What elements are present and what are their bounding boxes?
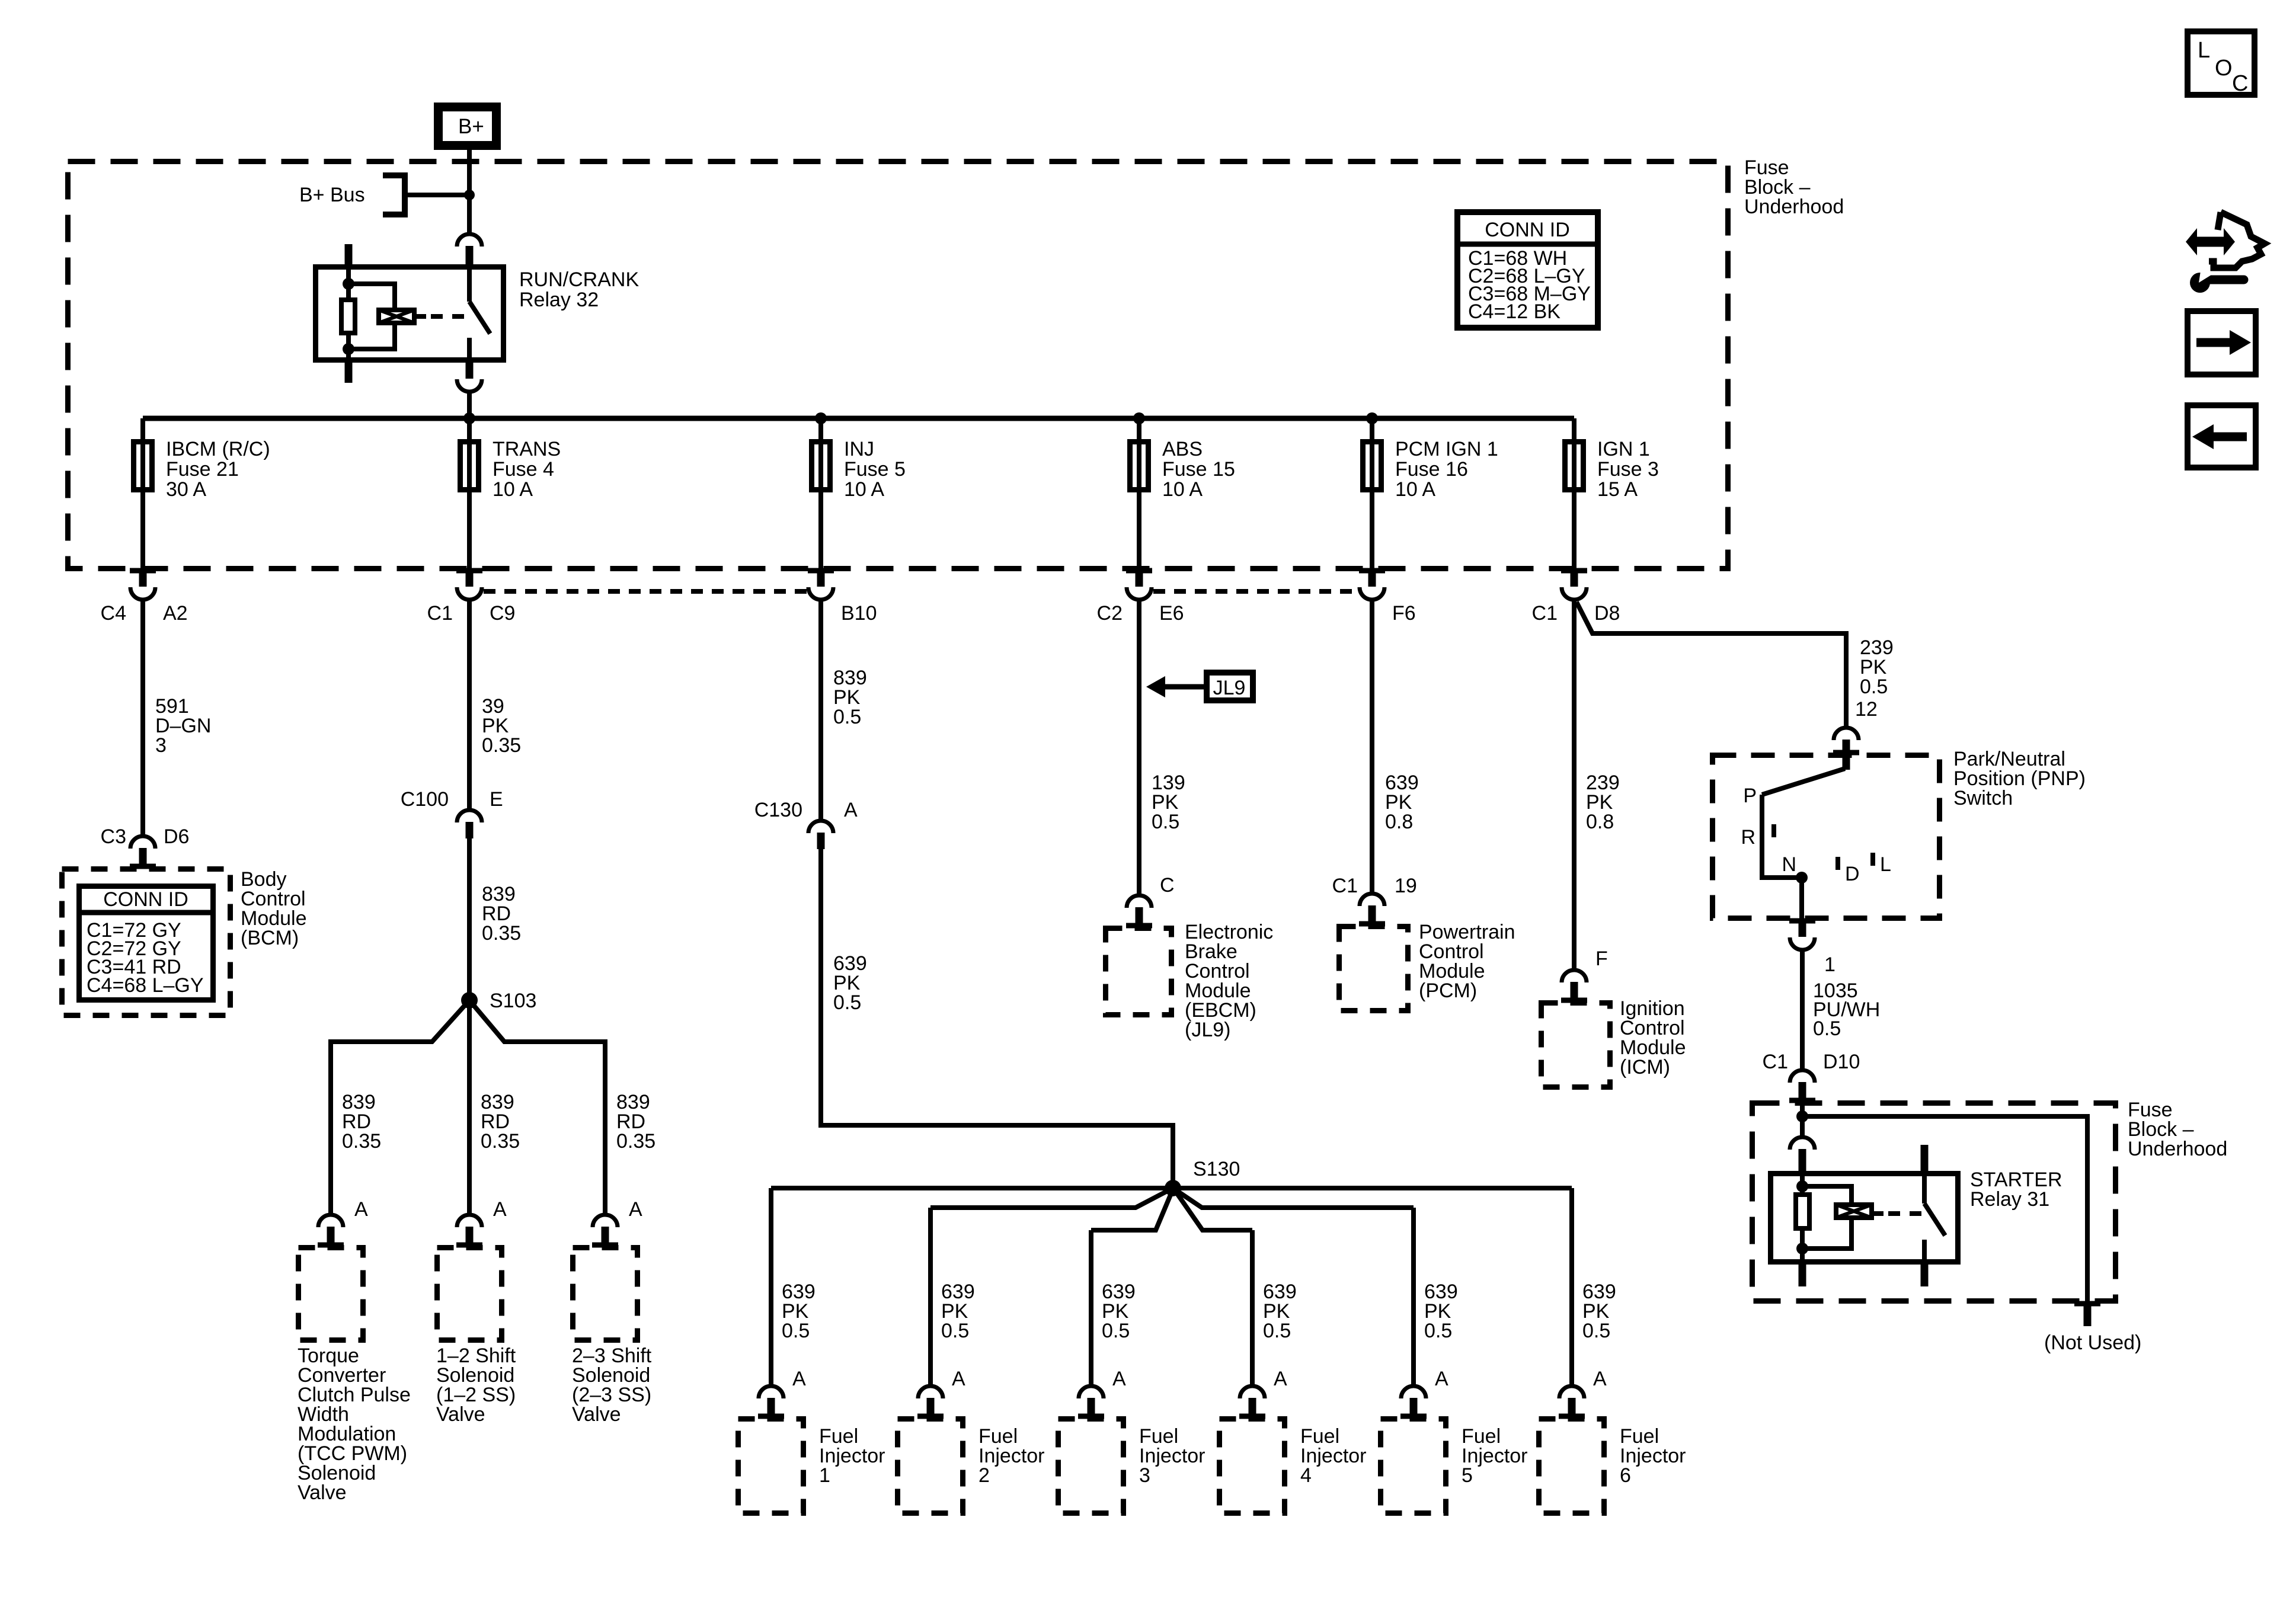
svg-text:Underhood: Underhood	[2128, 1138, 2227, 1160]
svg-text:D: D	[1845, 863, 1860, 885]
node bus junction	[1133, 412, 1145, 424]
svg-text:S103: S103	[490, 990, 536, 1012]
svg-text:IGN 1: IGN 1	[1597, 438, 1650, 460]
svg-text:(BCM): (BCM)	[241, 927, 299, 949]
svg-text:L: L	[2198, 38, 2210, 63]
wire bus to Fuse 21	[140, 418, 145, 571]
wire N to pin 1	[1799, 878, 1804, 921]
resistor relay K32	[341, 300, 355, 333]
label pin 12 PNP	[1855, 698, 1878, 721]
svg-text:12: 12	[1855, 698, 1878, 721]
label pin A solenoid	[493, 1198, 507, 1221]
svg-text:C4=12 BK: C4=12 BK	[1468, 300, 1560, 323]
relay K32 coil pin top stub	[345, 244, 353, 265]
svg-text:19: 19	[1395, 875, 1417, 897]
label Body Control Module	[241, 868, 307, 949]
svg-text:0.5: 0.5	[1424, 1320, 1452, 1342]
svg-text:0.5: 0.5	[782, 1320, 810, 1342]
coil relay K31	[1836, 1205, 1872, 1218]
relay K32 top pin connector	[457, 234, 482, 266]
svg-text:10 A: 10 A	[1162, 478, 1203, 501]
label pin A injector 4	[1274, 1368, 1287, 1390]
connector pin A injector 3	[1078, 1386, 1104, 1418]
component fuel injector 6	[1539, 1419, 1604, 1513]
icon LOC box	[2188, 31, 2255, 96]
svg-text:Fuse 5: Fuse 5	[844, 458, 906, 481]
label PNP switch	[1953, 748, 2086, 809]
svg-text:0.35: 0.35	[342, 1130, 381, 1153]
svg-text:C100: C100	[401, 788, 449, 811]
wire S130 level1	[771, 1186, 1572, 1190]
svg-text:Fuse 3: Fuse 3	[1597, 458, 1659, 481]
label 1–2 Shift solenoid valve	[436, 1345, 516, 1426]
label wire 639 PK 0.8	[1385, 772, 1419, 833]
svg-text:0.35: 0.35	[481, 1130, 520, 1153]
label wire 639 PK 0.5 injector 1	[782, 1281, 816, 1342]
net label B+ Bus	[299, 184, 365, 206]
fuse Fuse 16 10 A	[1363, 442, 1382, 490]
resistor relay K31	[1796, 1195, 1809, 1228]
wire 839 PK	[818, 600, 823, 820]
connector pin 12 PNP	[1833, 728, 1859, 754]
label connector E6	[1097, 602, 1184, 625]
switch K31 blade	[1924, 1204, 1945, 1235]
node bus junction	[1366, 412, 1378, 424]
svg-text:C1: C1	[1763, 1051, 1788, 1073]
label wire 639 PK 0.5 injector 6	[1582, 1281, 1616, 1342]
wire 639 PK injector 6	[1569, 1188, 1574, 1387]
label pin A injector 1	[792, 1368, 806, 1390]
wire 639 PK 0.8	[1370, 600, 1374, 893]
svg-text:0.5: 0.5	[1152, 811, 1179, 833]
node B+ Bus junction	[464, 190, 475, 200]
icon service wrench	[2190, 267, 2244, 293]
label wire 839 RD 0.35 upper	[482, 883, 521, 945]
wire coil loop bottom	[348, 324, 395, 349]
fuse Fuse 15 10 A	[1130, 442, 1149, 490]
svg-text:Valve: Valve	[436, 1403, 485, 1426]
connector pin A injector 2	[917, 1386, 944, 1418]
wire 639 PK injector 1	[769, 1188, 773, 1387]
svg-text:0.5: 0.5	[833, 991, 861, 1014]
label wire 639 PK 0.5 injector 4	[1263, 1281, 1297, 1342]
label wire 639 PK 0.5 feed	[833, 952, 867, 1014]
node relay K31 coil top	[1796, 1180, 1808, 1192]
label 2–3 Shift solenoid valve	[572, 1345, 652, 1426]
label connector C1 D10	[1763, 1051, 1860, 1073]
label fuse block underhood	[1744, 156, 1844, 218]
label connector C1 19	[1332, 875, 1417, 897]
svg-text:Switch: Switch	[1953, 787, 2013, 809]
wire S130 branch col5	[1173, 1188, 1414, 1208]
svg-text:O: O	[2215, 56, 2233, 81]
label connector D8	[1532, 602, 1620, 625]
svg-text:3: 3	[1139, 1464, 1150, 1487]
switch K31 top stub	[1921, 1145, 1929, 1172]
B+ Bus tap bracket	[383, 172, 469, 217]
component fuel injector 4	[1220, 1419, 1285, 1513]
option arrow JL9	[1146, 673, 1253, 700]
wire 39 PK	[467, 600, 472, 809]
component fuel injector 1	[738, 1419, 804, 1513]
svg-text:6: 6	[1620, 1464, 1631, 1487]
label Torque solenoid valve	[298, 1345, 411, 1504]
label connector C9	[427, 602, 516, 625]
svg-text:2: 2	[978, 1464, 990, 1487]
svg-text:B10: B10	[841, 602, 877, 625]
contact tick D	[1835, 857, 1840, 870]
connector pin D8	[1561, 571, 1587, 600]
svg-text:A: A	[354, 1198, 368, 1221]
svg-text:Valve: Valve	[572, 1403, 621, 1426]
relay K32 coil pin wire	[346, 264, 351, 298]
label wire 239 PK 0.8	[1586, 772, 1620, 833]
wire supply bus	[143, 416, 1574, 421]
dashed connector line E6-F6	[1153, 589, 1358, 594]
svg-text:F: F	[1595, 948, 1608, 970]
svg-text:C1: C1	[1532, 602, 1558, 625]
label wire 839 PK 0.5	[833, 667, 867, 728]
label STARTER Relay 31	[1970, 1169, 2062, 1211]
svg-text:B+ Bus: B+ Bus	[299, 184, 365, 206]
wire 839 RD upper	[467, 838, 472, 1001]
wire S103 left branch	[331, 1000, 469, 1215]
fuse Fuse 4 10 A	[461, 442, 479, 490]
component fuel injector 2	[898, 1419, 963, 1513]
svg-text:A: A	[1435, 1368, 1448, 1390]
wire 639 PK injector 5	[1411, 1208, 1416, 1387]
label connector A2	[101, 602, 188, 625]
label connector C3 D6	[101, 825, 190, 848]
label PCM	[1419, 921, 1515, 1002]
label fuse block underhood 2	[2128, 1099, 2227, 1160]
component 1–2 Shift solenoid valve	[437, 1248, 502, 1340]
connector pin C9	[456, 571, 482, 600]
relay K31 body	[1771, 1174, 1958, 1262]
svg-text:C2: C2	[1097, 602, 1123, 625]
svg-text:0.5: 0.5	[833, 706, 861, 728]
label contact L	[1880, 853, 1891, 876]
svg-text:C: C	[1160, 874, 1175, 897]
svg-text:Relay 31: Relay 31	[1970, 1188, 2049, 1211]
svg-text:S130: S130	[1193, 1158, 1240, 1180]
label pin A solenoid	[629, 1198, 642, 1221]
fuse block underhood 2 boundary	[1753, 1103, 2116, 1301]
connector pin A injector 6	[1559, 1386, 1585, 1418]
svg-text:B+: B+	[458, 115, 484, 138]
node relay K31 coil bottom	[1796, 1243, 1808, 1254]
svg-text:N: N	[1782, 853, 1796, 876]
svg-text:D8: D8	[1594, 602, 1620, 625]
svg-text:A2: A2	[163, 602, 188, 625]
node contact N	[1796, 872, 1808, 884]
label pin A injector 5	[1435, 1368, 1448, 1390]
stub not used	[2074, 1304, 2100, 1326]
component 2–3 Shift solenoid valve	[573, 1248, 638, 1340]
svg-text:F6: F6	[1392, 602, 1416, 625]
svg-text:Fuse 15: Fuse 15	[1162, 458, 1235, 481]
wire resistor to K31 coil bottom	[1800, 1231, 1805, 1265]
svg-text:PCM IGN 1: PCM IGN 1	[1395, 438, 1498, 460]
wire S103 right branch	[469, 1000, 605, 1215]
svg-text:10 A: 10 A	[493, 478, 533, 501]
svg-text:A: A	[1593, 1368, 1607, 1390]
label wire 239 PK 0.5	[1860, 636, 1894, 698]
power symbol B+	[439, 107, 497, 146]
svg-text:A: A	[952, 1368, 965, 1390]
icon service outline	[2209, 212, 2265, 268]
svg-text:A: A	[844, 799, 858, 821]
wire 1035 PU/WH	[1800, 950, 1805, 1071]
label wire 639 PK 0.5 injector 3	[1102, 1281, 1136, 1342]
connector pin A injector 4	[1239, 1386, 1265, 1418]
label pin A solenoid	[354, 1198, 368, 1221]
node bus junction	[815, 412, 827, 424]
label fuse Fuse 15	[1162, 438, 1235, 501]
wire bus to Fuse 15	[1137, 418, 1141, 571]
svg-text:C4=68 L–GY: C4=68 L–GY	[87, 974, 204, 997]
label pin F ICM	[1595, 948, 1608, 970]
connector pin E6	[1126, 571, 1152, 600]
relay K32 body	[316, 267, 504, 360]
svg-text:RUN/CRANK: RUN/CRANK	[519, 268, 639, 291]
svg-text:JL9: JL9	[1213, 677, 1246, 699]
wire K31 coil loop bottom	[1802, 1219, 1851, 1249]
connector pin A injector 5	[1400, 1386, 1427, 1418]
svg-text:Underhood: Underhood	[1744, 196, 1844, 218]
label wire 839 RD 0.35 branch	[616, 1091, 655, 1153]
svg-text:C4: C4	[101, 602, 126, 625]
node relay coil top	[343, 278, 354, 290]
label wire 39 PK 0.35	[482, 695, 521, 757]
svg-text:0.5: 0.5	[1813, 1017, 1841, 1040]
label fuse Fuse 4	[493, 438, 561, 501]
svg-text:Fuse 16: Fuse 16	[1395, 458, 1468, 481]
relay K32 coil pin bottom stub	[345, 363, 353, 383]
switch K32 blade	[469, 302, 490, 334]
wire coil loop top	[348, 284, 395, 309]
connector C130 pin A	[808, 821, 833, 849]
module ICM boundary	[1542, 1003, 1610, 1087]
svg-text:INJ: INJ	[844, 438, 874, 460]
switch K32 fixed bottom	[467, 338, 472, 363]
node starter feed junction	[1796, 1110, 1808, 1122]
label fuel injector 2	[978, 1425, 1045, 1487]
wire bus to Fuse 16	[1370, 418, 1374, 571]
label connector F6	[1392, 602, 1416, 625]
fuse Fuse 5 10 A	[812, 442, 830, 490]
svg-text:E6: E6	[1159, 602, 1184, 625]
switch K31 fixed top	[1922, 1171, 1927, 1204]
component Torque solenoid valve	[299, 1248, 363, 1340]
coil relay K32	[379, 310, 414, 323]
svg-text:C130: C130	[754, 799, 802, 821]
svg-text:CONN ID: CONN ID	[1485, 219, 1570, 241]
connector C100 pin E	[457, 810, 482, 838]
svg-text:0.5: 0.5	[1263, 1320, 1291, 1342]
svg-text:P: P	[1743, 785, 1757, 807]
svg-text:0.8: 0.8	[1385, 811, 1413, 833]
svg-text:A: A	[493, 1198, 507, 1221]
wire S130 branch col4	[1174, 1189, 1252, 1230]
label fuel injector 5	[1462, 1425, 1528, 1487]
connector pin A2	[130, 571, 156, 600]
wire K31 coil loop top	[1802, 1186, 1851, 1204]
connector pin 19 PCM	[1359, 894, 1385, 926]
wire S103 middle branch	[467, 1000, 472, 1215]
svg-text:Valve: Valve	[298, 1481, 347, 1504]
svg-text:3: 3	[155, 734, 167, 757]
connector pin 1 PNP exit	[1789, 921, 1815, 950]
wire B+ to relay	[467, 150, 472, 235]
connector pin D6 into BCM	[130, 836, 156, 868]
label fuse Fuse 21	[166, 438, 270, 501]
wire 639 PK injector 3	[1089, 1230, 1093, 1387]
label fuse Fuse 16	[1395, 438, 1498, 501]
svg-text:0.35: 0.35	[616, 1130, 655, 1153]
wire to not-used	[1802, 1116, 2087, 1304]
label RUN/CRANK Relay 32	[519, 268, 639, 311]
svg-text:A: A	[792, 1368, 806, 1390]
relay K32 switch bottom pin	[457, 363, 482, 392]
icon forward arrow box	[2188, 311, 2256, 375]
relay K31 top pin connector	[1790, 1137, 1815, 1172]
wire 591 D-GN	[140, 600, 145, 837]
svg-text:0.5: 0.5	[1582, 1320, 1610, 1342]
svg-text:A: A	[629, 1198, 642, 1221]
wire P to N	[1762, 795, 1802, 878]
svg-text:0.35: 0.35	[482, 922, 521, 945]
svg-text:A: A	[1112, 1368, 1126, 1390]
switch K31 fixed bottom	[1922, 1240, 1927, 1265]
svg-text:Fuse 21: Fuse 21	[166, 458, 239, 481]
svg-text:C1: C1	[1332, 875, 1358, 897]
dashed connector line C9-B10	[484, 589, 807, 594]
label fuel injector 3	[1139, 1425, 1205, 1487]
dashed actuator link K31	[1874, 1211, 1921, 1216]
svg-text:ABS: ABS	[1162, 438, 1203, 460]
connector pin B10	[808, 571, 834, 600]
wire 639 PK to S130	[821, 849, 1173, 1188]
svg-text:IBCM (R/C): IBCM (R/C)	[166, 438, 270, 460]
svg-text:30 A: 30 A	[166, 478, 206, 501]
svg-text:(ICM): (ICM)	[1620, 1056, 1670, 1078]
relay K31 switch bottom stub	[1921, 1265, 1929, 1286]
wire 239 PK 0.8	[1572, 600, 1576, 971]
connector pin C EBCM	[1126, 895, 1152, 927]
label EBCM	[1185, 921, 1273, 1041]
label pin A injector 6	[1593, 1368, 1607, 1390]
wire 639 PK injector 2	[928, 1208, 933, 1387]
module BCM boundary	[62, 869, 231, 1016]
label wire 839 RD 0.35 branch	[481, 1091, 520, 1153]
svg-text:D6: D6	[164, 825, 189, 848]
svg-text:10 A: 10 A	[844, 478, 884, 501]
connector pin A solenoid	[592, 1215, 618, 1247]
label wire 639 PK 0.5 injector 5	[1424, 1281, 1458, 1342]
label fuse Fuse 5	[844, 438, 906, 501]
splice S130	[1165, 1180, 1181, 1196]
svg-text:C3: C3	[101, 825, 126, 848]
label wire 639 PK 0.5 injector 2	[941, 1281, 975, 1342]
svg-text:10 A: 10 A	[1395, 478, 1435, 501]
wire S130 branch col3	[1091, 1189, 1173, 1230]
label wire 839 RD 0.35 branch	[342, 1091, 381, 1153]
svg-text:0.35: 0.35	[482, 734, 521, 757]
PNP wiper blade	[1762, 753, 1846, 795]
node relay coil bottom	[343, 343, 354, 355]
svg-text:A: A	[1274, 1368, 1287, 1390]
connector pin F ICM	[1561, 970, 1587, 1002]
svg-text:5: 5	[1462, 1464, 1473, 1487]
wire S130 branch col2	[930, 1188, 1173, 1208]
svg-text:0.5: 0.5	[1102, 1320, 1130, 1342]
label S130	[1193, 1158, 1240, 1180]
label connector C130 A	[754, 799, 858, 821]
label fuse Fuse 3	[1597, 438, 1659, 501]
node bus junction	[463, 412, 475, 424]
svg-text:4: 4	[1300, 1464, 1312, 1487]
svg-text:D10: D10	[1823, 1051, 1860, 1073]
connector pin A injector 1	[758, 1386, 784, 1418]
module PCM boundary	[1339, 927, 1408, 1011]
svg-text:TRANS: TRANS	[493, 438, 561, 460]
fuse Fuse 21 30 A	[134, 442, 152, 490]
relay K31 coil bottom stub	[1799, 1265, 1806, 1286]
switch K32 fixed top	[467, 264, 472, 302]
wire relay to bus	[467, 392, 472, 421]
svg-text:E: E	[490, 788, 503, 811]
svg-text:C9: C9	[490, 602, 515, 625]
connector pin A solenoid	[456, 1215, 482, 1247]
svg-text:0.8: 0.8	[1586, 811, 1614, 833]
connector pin A solenoid	[318, 1215, 344, 1247]
svg-text:15 A: 15 A	[1597, 478, 1638, 501]
svg-text:0.5: 0.5	[941, 1320, 969, 1342]
label connector B10	[841, 602, 877, 625]
label wire 139 PK 0.5	[1152, 772, 1185, 833]
svg-text:C: C	[2232, 71, 2248, 96]
connector pin D10	[1789, 1070, 1815, 1102]
svg-text:(Not Used): (Not Used)	[2044, 1331, 2141, 1354]
module EBCM boundary	[1106, 929, 1172, 1015]
svg-text:(PCM): (PCM)	[1419, 980, 1477, 1002]
wire D10 into block	[1800, 1102, 1805, 1135]
label pin A injector 3	[1112, 1368, 1126, 1390]
svg-text:1: 1	[1824, 953, 1835, 976]
label pin C EBCM	[1160, 874, 1175, 897]
wire bus to Fuse 4	[467, 418, 472, 571]
wire resistor to coil pin bottom	[346, 335, 351, 363]
fuse Fuse 3 15 A	[1565, 442, 1584, 490]
icon back arrow box	[2188, 405, 2256, 468]
svg-text:R: R	[1741, 826, 1755, 849]
svg-text:C1: C1	[427, 602, 453, 625]
connector pin F6	[1359, 571, 1385, 600]
fuse block underhood boundary	[68, 162, 1728, 569]
svg-text:(JL9): (JL9)	[1185, 1019, 1230, 1041]
wire 639 PK injector 4	[1250, 1230, 1255, 1387]
svg-text:1: 1	[819, 1464, 830, 1487]
label contact N	[1782, 853, 1796, 876]
CONN ID table fuse block	[1454, 212, 1601, 328]
label fuel injector 6	[1620, 1425, 1686, 1487]
wire bus to Fuse 5	[818, 418, 823, 571]
contact tick R	[1771, 824, 1776, 837]
label fuel injector 1	[819, 1425, 885, 1487]
label (Not Used)	[2044, 1331, 2141, 1354]
svg-text:CONN ID: CONN ID	[103, 888, 188, 911]
